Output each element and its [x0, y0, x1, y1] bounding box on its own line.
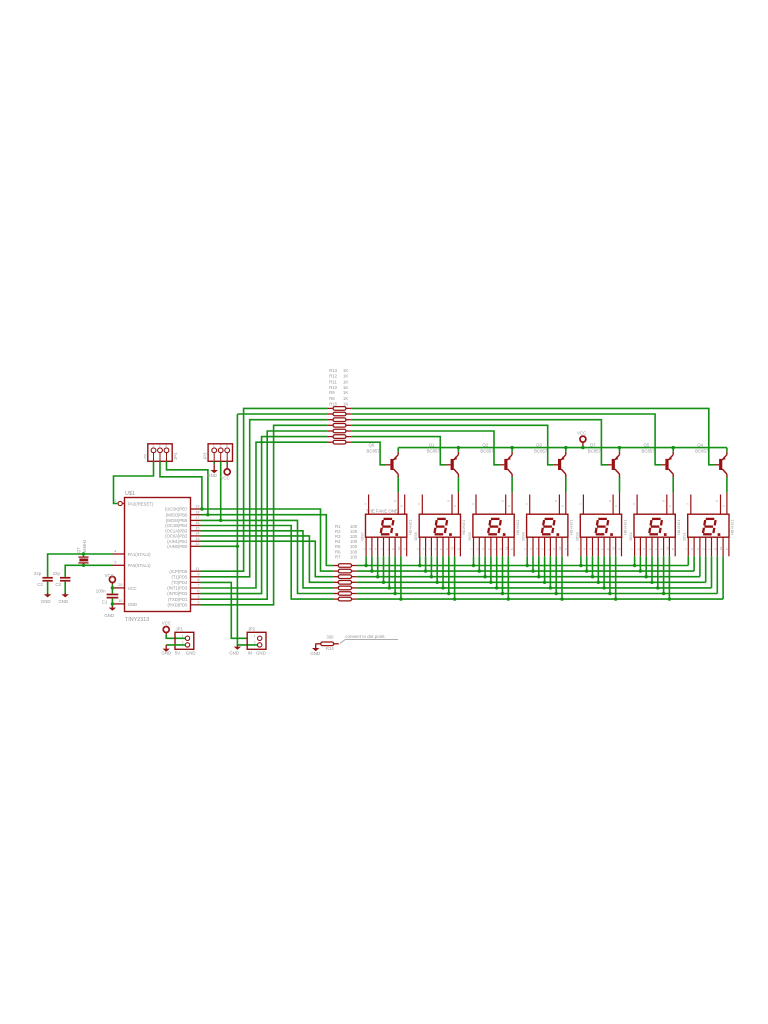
wire DIS2 segment pin 7: [668, 556, 670, 599]
svg-text:BC857: BC857: [367, 448, 381, 453]
wire 1K row 5 to transistor Q2: [351, 431, 500, 465]
svg-text:C3: C3: [55, 582, 61, 587]
svg-text:JP1: JP1: [176, 627, 184, 632]
svg-text:+5V: +5V: [144, 453, 148, 460]
wire DIS4 segment pin 7: [561, 556, 563, 599]
wire 1K row 2 to transistor Q5: [351, 414, 661, 465]
svg-text:100: 100: [350, 554, 358, 559]
wire collector Q5 to display: [672, 477, 674, 492]
pin 16 PB4 stub: [191, 521, 201, 525]
ground below C2: [44, 593, 51, 597]
svg-text:5: 5: [114, 561, 116, 565]
svg-text:1K: 1K: [343, 374, 348, 379]
svg-text:20: 20: [118, 583, 122, 587]
wire PD riser to 1K row 6: [201, 437, 328, 594]
wire collector Q2 to display: [511, 477, 513, 492]
wire collector Q7 to display: [619, 477, 621, 492]
svg-text:HD-H101: HD-H101: [516, 520, 520, 535]
labels 1K resistor bank: [329, 368, 348, 407]
junction segment bus: [388, 586, 391, 589]
svg-text:10: 10: [451, 546, 455, 550]
svg-text:2: 2: [182, 641, 184, 645]
svg-text:THE FAKE ONE: THE FAKE ONE: [366, 508, 398, 513]
svg-text:BC857: BC857: [588, 448, 602, 453]
svg-text:Q6: Q6: [369, 442, 375, 447]
capacitor C2 22p: [42, 577, 52, 582]
resistor R5 100: [333, 586, 357, 590]
junction segment bus: [656, 586, 659, 589]
wire emitter Q2 to VCC rail: [511, 448, 513, 452]
wire DIS1 segment pin 7: [722, 556, 724, 599]
pin 15 PB3 stub: [191, 527, 201, 531]
junction segment bus: [668, 597, 671, 600]
junction JP4-2 PB7: [200, 507, 203, 510]
junction segment bus: [441, 586, 444, 589]
wire VCC to JP1-1: [166, 635, 185, 639]
svg-text:1: 1: [182, 634, 184, 638]
svg-text:1K: 1K: [343, 368, 348, 373]
svg-text:3: 3: [197, 595, 199, 599]
svg-text:HD-H101: HD-H101: [731, 520, 735, 535]
junction segment bus: [526, 564, 529, 567]
wire C2 to ground: [47, 582, 49, 595]
junction segment bus: [399, 597, 402, 600]
wire DIS3 segment pin 3: [592, 556, 594, 576]
svg-text:connect to dot point.: connect to dot point.: [345, 634, 386, 639]
resistor R10 1K: [328, 424, 351, 428]
svg-text:GND: GND: [128, 602, 137, 607]
wire DIS7 segment pin 3: [377, 556, 379, 576]
svg-text:(MISO)PB6: (MISO)PB6: [166, 512, 188, 517]
svg-text:R8: R8: [329, 396, 335, 401]
wire 1K row 7 to transistor Q6: [351, 442, 386, 465]
resistor R12 1K: [328, 412, 351, 416]
resistor R2 100: [333, 569, 357, 573]
pin 4 XTAL2 stub: [113, 549, 125, 554]
wire DIS4 segment pin 6: [555, 556, 557, 593]
wire segment bus 1: [357, 565, 689, 567]
pin 11 PD stub: [191, 567, 201, 571]
VCC symbol below JP3: [224, 469, 230, 475]
wire DIS4 segment pin 2: [532, 556, 534, 571]
wire DIS3 segment pin 7: [615, 556, 617, 599]
display DIS3 HD-H101: [575, 492, 627, 556]
svg-text:(OC1B)PB4: (OC1B)PB4: [165, 523, 188, 528]
wire DIS1 segment pin 6: [716, 556, 718, 593]
wire PD riser to 1K row 5: [201, 431, 328, 599]
pin 20 VCC stub: [114, 583, 125, 588]
svg-text:C1: C1: [102, 600, 108, 605]
wire XTAL1 to C3: [65, 565, 112, 577]
wire DIS6 segment pin 3: [430, 556, 432, 576]
svg-text:10: 10: [719, 546, 723, 550]
wire emitter Q7 to VCC rail: [619, 448, 621, 452]
display DIS6 HD-H101: [414, 492, 466, 556]
wire DIS6 segment pin 2: [425, 556, 427, 571]
junction segment bus: [543, 581, 546, 584]
svg-text:JP2: JP2: [248, 627, 256, 632]
wire PD riser to 1K row 3: [201, 420, 328, 577]
wire PB7 to R2: [201, 509, 334, 571]
wire PD riser to 1K row 1: [201, 408, 328, 571]
svg-text:R15: R15: [329, 402, 337, 407]
wire DIS7 segment pin 4: [383, 556, 385, 582]
connector JP1: [175, 627, 196, 656]
resistor R3 100: [333, 575, 357, 579]
capacitor C3 22p: [60, 577, 70, 582]
transistor Q1 BC857: [427, 442, 459, 477]
junction segment bus: [478, 569, 481, 572]
wire JP3-3 red stem: [226, 465, 228, 470]
svg-text:DIS3: DIS3: [575, 532, 579, 540]
pin 9 PD stub: [191, 573, 201, 577]
junction segment bus: [549, 586, 552, 589]
svg-text:HD-H101: HD-H101: [462, 520, 466, 535]
wire DIS4 segment pin 5: [549, 556, 551, 588]
svg-text:JP3: JP3: [202, 452, 207, 460]
junction segment bus: [436, 581, 439, 584]
junction segment bus: [560, 597, 563, 600]
svg-text:19: 19: [195, 505, 199, 509]
svg-text:U$1: U$1: [125, 491, 135, 497]
junction emitter rail: [564, 446, 567, 449]
svg-text:PA1(XTAL2): PA1(XTAL2): [128, 552, 151, 557]
wire PD riser to 1K row 7: [201, 442, 328, 588]
svg-text:(TXD)PD1: (TXD)PD1: [168, 597, 188, 602]
svg-text:14: 14: [195, 532, 199, 536]
svg-text:DIS5: DIS5: [468, 532, 472, 540]
svg-text:GND: GND: [104, 613, 114, 618]
pin 5 XTAL1 stub: [113, 561, 125, 566]
svg-text:PA2(/RESET): PA2(/RESET): [128, 501, 154, 506]
wire emitter Q6 to VCC rail: [397, 448, 399, 452]
wire DIS7 segment pin 2: [371, 556, 373, 571]
svg-text:11: 11: [196, 567, 200, 571]
junction segment bus: [579, 564, 582, 567]
wire segment bus 2: [357, 570, 694, 572]
junction PB0: [236, 545, 239, 548]
resistor R13 1K: [328, 407, 351, 411]
junction segment bus: [650, 581, 653, 584]
svg-text:BC857: BC857: [480, 448, 494, 453]
svg-text:Q3: Q3: [536, 442, 542, 447]
resistor R4 100: [333, 581, 357, 585]
junction segment bus: [585, 569, 588, 572]
svg-text:22p: 22p: [34, 571, 42, 576]
junction VCC rail: [581, 446, 584, 449]
svg-text:1K: 1K: [343, 379, 348, 384]
ground below C3: [62, 593, 69, 597]
wire PB2 to R4: [201, 536, 334, 582]
svg-text:10: 10: [612, 546, 616, 550]
pin 12 PB0 stub: [191, 542, 201, 546]
wire JP3-1 to ground: [213, 461, 215, 464]
wire DIS1 segment pin 3: [699, 556, 701, 576]
junction segment bus: [495, 586, 498, 589]
junction JP3-2 PB5: [219, 519, 222, 522]
svg-text:C2: C2: [37, 582, 43, 587]
wire DIS5 segment pin 2: [478, 556, 480, 571]
svg-text:Q7: Q7: [76, 547, 81, 553]
wire JP4-2 to PB7: [160, 461, 202, 509]
wire DIS2 segment pin 1: [634, 556, 636, 565]
wire DIS4 segment pin 4: [544, 556, 546, 582]
svg-text:2: 2: [197, 601, 199, 605]
svg-text:R11: R11: [329, 379, 337, 384]
svg-text:1: 1: [114, 499, 116, 503]
pin 13 PB1 stub: [191, 537, 201, 541]
junction pin20 VCC: [111, 586, 114, 589]
svg-text:HD-H101: HD-H101: [623, 520, 627, 535]
wire DIS1 segment pin 5: [711, 556, 713, 588]
svg-text:1: 1: [213, 444, 215, 448]
wire JP1-2 to ground: [166, 644, 185, 646]
wire JP4-3 to PB6: [167, 461, 208, 514]
wire PB0 riser 1K row 2 and JP2-2: [237, 414, 257, 645]
wire DIS3 segment pin 1: [580, 556, 582, 565]
resistor R11 1K: [328, 418, 351, 422]
wire emitter Q5 to VCC rail: [672, 448, 674, 452]
svg-text:12: 12: [195, 542, 199, 546]
wire collector Q1 to display: [457, 477, 459, 492]
svg-text:9: 9: [197, 573, 199, 577]
svg-text:Q5: Q5: [644, 442, 650, 447]
junction segment bus: [591, 575, 594, 578]
junction emitter rail: [510, 446, 513, 449]
svg-text:BC857: BC857: [427, 448, 441, 453]
wire segment bus 3: [357, 576, 700, 578]
wire JP4-1 to RESET: [114, 461, 154, 503]
wire DIS7 segment pin 6: [394, 556, 396, 593]
wire DIS1 segment pin 4: [705, 556, 707, 582]
junction segment bus: [364, 564, 367, 567]
svg-text:VCC: VCC: [577, 431, 586, 436]
pin 8 PD stub: [191, 578, 201, 582]
svg-text:HD-H101: HD-H101: [409, 520, 413, 535]
wire DIS6 segment pin 1: [419, 556, 421, 565]
junction segment bus: [393, 592, 396, 595]
junction segment bus: [430, 575, 433, 578]
wire segment bus 5: [357, 587, 712, 589]
junction segment bus: [633, 564, 636, 567]
junction segment bus: [370, 569, 373, 572]
display DIS5 HD-H101: [468, 492, 520, 556]
wire DIS3 segment pin 5: [603, 556, 605, 588]
wire DIS1 segment pin 1: [687, 556, 689, 565]
svg-text:Q2: Q2: [482, 442, 488, 447]
wire 1K row 6 to transistor Q1: [351, 437, 446, 465]
pin 7 PD stub: [191, 584, 201, 588]
wire DIS2 segment pin 6: [663, 556, 665, 593]
resistor R1 100: [333, 564, 357, 568]
svg-text:GND: GND: [58, 599, 68, 604]
connector JP3: [202, 444, 232, 462]
VCC symbol on rail: [580, 436, 586, 442]
capacitor C1 100n: [107, 594, 119, 599]
svg-text:R7: R7: [335, 554, 341, 559]
wire 1K row 4 to transistor Q3: [351, 425, 554, 465]
svg-text:JP4: JP4: [173, 452, 178, 460]
wire DIS5 segment pin 3: [484, 556, 486, 576]
svg-text:10: 10: [504, 546, 508, 550]
IC U1 TINY2313 body: [125, 491, 191, 623]
svg-text:HD-H101: HD-H101: [570, 520, 574, 535]
svg-text:DIS1: DIS1: [683, 532, 687, 540]
svg-text:VCC: VCC: [220, 476, 229, 481]
display DIS1 HD-H101: [683, 492, 735, 556]
svg-text:1: 1: [152, 444, 154, 448]
junction segment bus: [376, 575, 379, 578]
svg-text:1K: 1K: [343, 390, 348, 395]
junction emitter rail: [457, 446, 460, 449]
junction segment bus: [424, 569, 427, 572]
svg-text:IN: IN: [248, 651, 252, 656]
ground below C1: [109, 606, 116, 610]
wire DIS3 segment pin 2: [586, 556, 588, 571]
svg-text:GND: GND: [256, 651, 266, 656]
ground at JP2: [234, 645, 241, 650]
junction pin10 GND: [111, 602, 114, 605]
wire PB6 to R1: [201, 515, 334, 566]
svg-text:BC857: BC857: [695, 448, 709, 453]
svg-text:4: 4: [114, 549, 116, 553]
svg-text:(INT0)PD2: (INT0)PD2: [167, 591, 188, 596]
junction segment bus: [614, 597, 617, 600]
svg-text:1K: 1K: [343, 396, 348, 401]
svg-text:22p: 22p: [53, 571, 61, 576]
svg-text:DIS7: DIS7: [361, 532, 365, 540]
wire PD4 to JP2-1: [201, 582, 247, 638]
transistor Q5 BC857: [642, 442, 674, 477]
svg-text:GND: GND: [41, 599, 51, 604]
svg-text:3: 3: [165, 444, 167, 448]
wire DIS2 segment pin 4: [651, 556, 653, 582]
svg-text:330: 330: [327, 635, 335, 640]
pin 17 PB5 stub: [191, 516, 201, 520]
labels 100 ohm resistor bank: [335, 524, 358, 560]
junction crystal top: [82, 552, 85, 555]
display DIS4 HD-H101: [522, 492, 574, 556]
connector JP4: [144, 444, 178, 462]
svg-text:PA0(XTAL1): PA0(XTAL1): [128, 563, 151, 568]
wire emitter Q3 to VCC rail: [565, 448, 567, 452]
junction segment bus: [382, 581, 385, 584]
wire PB5 to R6: [201, 520, 334, 593]
resistor R15 1K: [328, 440, 351, 444]
junction segment bus: [453, 597, 456, 600]
junction JP4-3 PB6: [206, 513, 209, 516]
svg-text:100n: 100n: [96, 589, 106, 594]
svg-text:TINY2313: TINY2313: [125, 617, 149, 623]
resistor R7 100: [333, 597, 357, 601]
ground below JP3: [211, 464, 218, 473]
svg-text:10: 10: [397, 546, 401, 550]
ground at R14: [312, 644, 319, 652]
svg-text:(ICP)PD6: (ICP)PD6: [169, 569, 188, 574]
wire segment bus 7: [357, 598, 723, 600]
svg-text:R13: R13: [329, 368, 337, 373]
wire emitter Q1 to VCC rail: [457, 448, 459, 452]
wire DIS7 segment pin 1: [365, 556, 367, 565]
wire DIS6 segment pin 4: [436, 556, 438, 582]
wire DIS1 segment pin 2: [693, 556, 695, 571]
svg-text:3: 3: [226, 444, 228, 448]
svg-text:Q4: Q4: [697, 442, 703, 447]
pin 18 PB6 stub: [191, 510, 201, 514]
junction segment bus: [608, 592, 611, 595]
pin 19 PB7 stub: [191, 505, 201, 509]
svg-text:HD-H101: HD-H101: [677, 520, 681, 535]
wire emitter Q4 to VCC rail: [726, 448, 728, 452]
wire DIS4 segment pin 3: [538, 556, 540, 576]
wire JP3-3 to VCC: [226, 461, 228, 464]
wire DIS6 segment pin 5: [442, 556, 444, 588]
svg-text:13: 13: [195, 537, 199, 541]
display DIS7 HD-H101: [361, 492, 413, 556]
svg-text:GND: GND: [229, 651, 239, 656]
svg-text:R12: R12: [329, 374, 337, 379]
junction segment bus: [597, 581, 600, 584]
svg-text:VCC: VCC: [162, 620, 171, 625]
svg-text:18: 18: [195, 510, 199, 514]
svg-text:16MHz: 16MHz: [82, 540, 87, 553]
svg-text:8: 8: [197, 578, 199, 582]
junction segment bus: [537, 575, 540, 578]
resistor R6 100: [333, 592, 357, 596]
svg-text:DIS4: DIS4: [522, 532, 526, 540]
wire DIS2 segment pin 5: [657, 556, 659, 588]
svg-text:Q7: Q7: [590, 442, 596, 447]
wire collector Q6 to display: [397, 477, 399, 492]
wire DIS3 segment pin 6: [609, 556, 611, 593]
junction segment bus: [645, 575, 648, 578]
transistor Q2 BC857: [480, 442, 512, 477]
wire PB1 to R3: [201, 541, 334, 577]
VCC symbol above C1: [109, 577, 115, 583]
resistor R14 330: [316, 642, 339, 646]
wire DIS2 segment pin 3: [645, 556, 647, 576]
wire DIS5 segment pin 1: [473, 556, 475, 565]
transistor Q4 BC857: [695, 442, 727, 477]
junction segment bus: [555, 592, 558, 595]
svg-text:VCC: VCC: [105, 573, 114, 578]
svg-text:5V: 5V: [175, 651, 180, 656]
wire PB0 to node: [201, 545, 238, 547]
wire JP3-2 to PB5: [220, 461, 222, 520]
resistor R8 1K: [328, 435, 351, 439]
svg-text:1: 1: [254, 634, 256, 638]
note connect to dot point: [340, 634, 398, 643]
wire C1 to ground: [111, 599, 113, 608]
VCC symbol at JP1: [163, 627, 169, 633]
wire DIS5 segment pin 6: [502, 556, 504, 593]
junction emitter rail: [618, 446, 621, 449]
junction segment bus: [639, 569, 642, 572]
svg-text:1K: 1K: [343, 402, 348, 407]
junction segment bus: [507, 597, 510, 600]
wire collector Q4 to display: [726, 477, 728, 492]
junction segment bus: [418, 564, 421, 567]
resistor R9 1K: [328, 429, 351, 433]
wire DIS5 segment pin 4: [490, 556, 492, 582]
svg-text:BC857: BC857: [534, 448, 548, 453]
svg-text:(UCSK)PB7: (UCSK)PB7: [165, 507, 188, 512]
junction segment bus: [602, 586, 605, 589]
junction crystal bottom: [82, 564, 85, 567]
wire JP1 VCC red stem: [165, 632, 167, 635]
pin 6 PD stub: [191, 589, 201, 593]
pin 14 PB2 stub: [191, 532, 201, 536]
